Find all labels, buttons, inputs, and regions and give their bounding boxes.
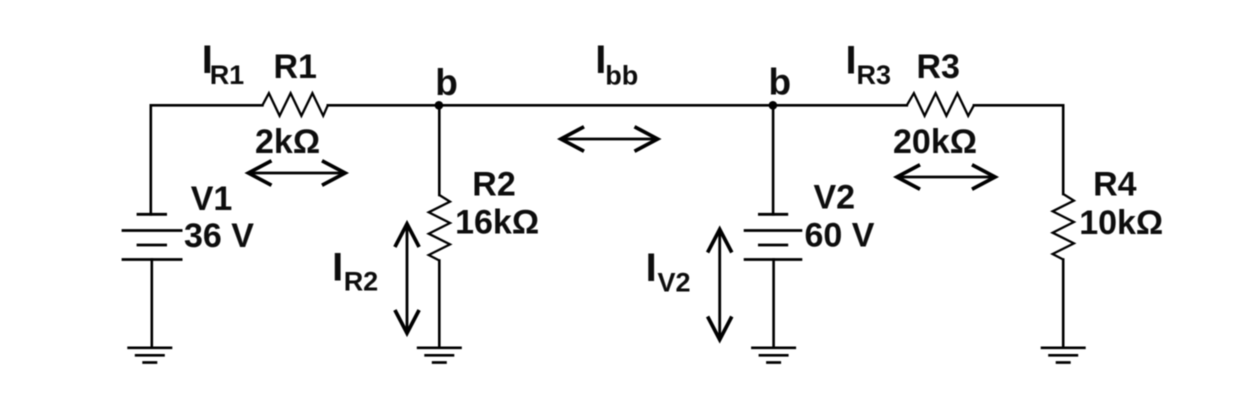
svg-text:b: b <box>435 62 458 103</box>
svg-text:V2: V2 <box>814 179 856 217</box>
svg-text:R2: R2 <box>344 267 379 297</box>
svg-text:I: I <box>646 246 657 290</box>
svg-text:R1: R1 <box>274 48 317 86</box>
svg-text:20kΩ: 20kΩ <box>893 123 977 161</box>
svg-text:R2: R2 <box>472 165 515 203</box>
svg-text:R4: R4 <box>1093 165 1137 203</box>
svg-text:R3: R3 <box>857 60 892 90</box>
svg-text:R1: R1 <box>210 60 245 90</box>
svg-text:V1: V1 <box>191 180 233 218</box>
svg-text:V2: V2 <box>658 268 691 298</box>
svg-text:R3: R3 <box>917 48 960 86</box>
svg-text:2kΩ: 2kΩ <box>255 123 320 161</box>
svg-text:10kΩ: 10kΩ <box>1079 204 1163 242</box>
svg-text:16kΩ: 16kΩ <box>455 204 539 242</box>
svg-text:36 V: 36 V <box>184 217 254 255</box>
svg-text:I: I <box>846 38 857 82</box>
svg-text:60 V: 60 V <box>805 217 875 255</box>
svg-text:bb: bb <box>605 61 638 91</box>
svg-text:b: b <box>769 62 792 103</box>
svg-text:I: I <box>332 246 343 290</box>
